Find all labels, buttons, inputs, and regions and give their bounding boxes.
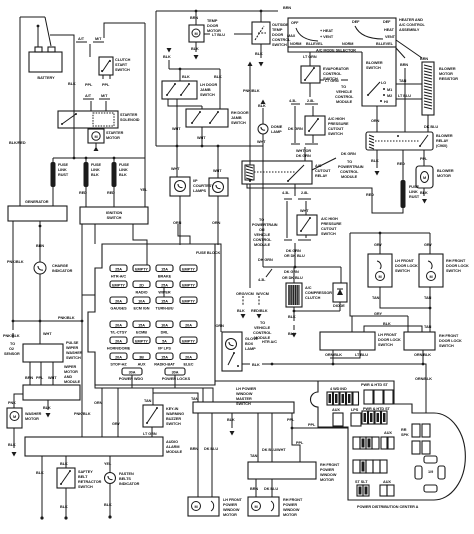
svg-text:SWITCH: SWITCH: [66, 356, 81, 360]
svg-text:WINDOW: WINDOW: [320, 473, 337, 477]
svg-text:DK GRN: DK GRN: [258, 258, 273, 262]
wire ORN/BLK to PDC: [272, 364, 426, 413]
LH front power window motor: [188, 497, 243, 517]
svg-text:M/T: M/T: [101, 94, 108, 98]
svg-text:SWITCH: SWITCH: [446, 269, 461, 273]
svg-text:OR: OR: [259, 228, 265, 232]
svg-text:DK GRN: DK GRN: [288, 127, 303, 131]
svg-text:25A: 25A: [161, 284, 168, 288]
RH front power window motor: [248, 497, 303, 517]
wire blower sw out: [377, 106, 428, 132]
wire PNK/BLK relay feed: [243, 62, 260, 166]
svg-text:RH FRONT: RH FRONT: [283, 498, 303, 502]
svg-text:EMPTY: EMPTY: [182, 340, 195, 344]
svg-text:AUDIO: AUDIO: [166, 440, 178, 444]
svg-text:ORN: ORN: [173, 221, 182, 225]
LH front door lock switch lower: [320, 332, 401, 350]
wire courtesy bus: [156, 145, 263, 147]
LH power window master switch: [193, 387, 294, 413]
svg-text:RUST: RUST: [58, 173, 69, 177]
svg-text:START: START: [115, 63, 128, 67]
node A/T M/T top bracket: [76, 23, 145, 57]
svg-text:DOOR LOCK: DOOR LOCK: [439, 339, 462, 343]
svg-text:SOLENOID: SOLENOID: [120, 118, 140, 122]
svg-text:TO: TO: [259, 218, 264, 222]
svg-text:BLOWER: BLOWER: [439, 67, 456, 71]
svg-text:A/T: A/T: [85, 94, 92, 98]
svg-text:LT BLU: LT BLU: [398, 94, 411, 98]
svg-text:EMPTY: EMPTY: [135, 340, 148, 344]
svg-text:M: M: [194, 505, 197, 509]
svg-text:POWER: POWER: [283, 503, 297, 507]
battery B1: [29, 47, 62, 80]
svg-text:FUSE: FUSE: [409, 185, 419, 189]
svg-text:ECMB: ECMB: [136, 331, 147, 335]
I/P courtesy lamp 1: [170, 146, 214, 245]
svg-text:AND: AND: [64, 375, 72, 379]
svg-text:M: M: [423, 176, 426, 180]
svg-text:TO: TO: [347, 160, 352, 164]
svg-text:PNK: PNK: [8, 401, 16, 405]
fuse block outline: [88, 244, 215, 385]
svg-text:SWITCH: SWITCH: [166, 422, 181, 426]
svg-text:POWER WDO: POWER WDO: [119, 377, 143, 381]
wire long bus y393: [95, 385, 213, 402]
svg-text:PULSE: PULSE: [66, 341, 79, 345]
svg-text:30A: 30A: [129, 371, 136, 375]
svg-text:SWITCH: SWITCH: [378, 343, 393, 347]
svg-text:POWER DISTRIBUTION CENTER A: POWER DISTRIBUTION CENTER A: [357, 505, 419, 509]
wire fuse block feeds: [95, 224, 190, 265]
svg-text:IGNITION: IGNITION: [106, 211, 123, 215]
svg-text:WHT: WHT: [213, 169, 222, 173]
svg-text:RED: RED: [366, 193, 374, 197]
svg-text:20A: 20A: [185, 324, 192, 328]
svg-text:NORM: NORM: [342, 42, 353, 46]
outside temp door control switch: [252, 11, 291, 67]
svg-text:PPL: PPL: [85, 83, 93, 87]
svg-text:BUZZER: BUZZER: [166, 417, 181, 421]
svg-text:SWITCH: SWITCH: [236, 402, 251, 406]
svg-text:4 WD IND: 4 WD IND: [330, 387, 347, 391]
wire top bus: [156, 11, 278, 146]
wire pulse to wiper: [30, 362, 53, 385]
svg-text:DOOR LOCK: DOOR LOCK: [395, 264, 418, 268]
svg-text:JAMB: JAMB: [231, 116, 242, 120]
svg-text:+ VENT: + VENT: [320, 35, 334, 39]
svg-text:SENSOR: SENSOR: [4, 352, 20, 356]
svg-text:CUTOUT: CUTOUT: [321, 227, 337, 231]
svg-text:ST SLT: ST SLT: [355, 480, 368, 484]
text VCM arrows: [236, 184, 272, 340]
svg-text:DK GRN: DK GRN: [286, 249, 301, 253]
svg-text:WIPER: WIPER: [158, 291, 171, 295]
svg-text:OUTSIDE: OUTSIDE: [272, 23, 289, 27]
svg-text:MODULE: MODULE: [341, 175, 358, 179]
svg-text:COMPRESSOR: COMPRESSOR: [305, 291, 332, 295]
svg-text:SWITCH: SWITCH: [78, 485, 93, 489]
svg-text:HI: HI: [384, 100, 388, 104]
wire left main vertical: [20, 17, 45, 206]
svg-text:A/C HIGH: A/C HIGH: [321, 217, 338, 221]
wire GRY bus: [350, 233, 430, 332]
svg-text:HTR-A/C: HTR-A/C: [111, 275, 127, 279]
wire evap split 4.3/2.8: [289, 83, 318, 143]
svg-text:MOTOR: MOTOR: [437, 174, 451, 178]
svg-text:BLK: BLK: [60, 462, 68, 466]
svg-text:15A: 15A: [161, 356, 168, 360]
fuse link rust blower: [247, 180, 420, 213]
svg-text:BOX: BOX: [245, 342, 254, 346]
svg-text:O2: O2: [9, 347, 14, 351]
svg-text:MOTOR: MOTOR: [283, 513, 297, 517]
svg-text:LT GRN: LT GRN: [303, 55, 317, 59]
fasten belts indicator: [104, 472, 140, 519]
svg-text:4.3L: 4.3L: [289, 99, 297, 103]
wire audio outs: [42, 456, 110, 518]
ground arrow left: [168, 60, 170, 69]
svg-text:A/T: A/T: [78, 37, 85, 41]
svg-text:PPL: PPL: [308, 423, 316, 427]
wire main feed bus: [53, 157, 145, 159]
svg-text:WASHER: WASHER: [25, 412, 42, 416]
svg-text:WHT: WHT: [197, 136, 206, 140]
svg-text:DK BLU: DK BLU: [204, 447, 218, 451]
svg-text:DOOR: DOOR: [272, 33, 283, 37]
svg-text:20A: 20A: [115, 300, 122, 304]
wire relay outs: [376, 150, 378, 168]
svg-text:TAN: TAN: [250, 454, 258, 458]
svg-text:BLK: BLK: [258, 104, 266, 108]
node A/T M/T lower bracket: [83, 94, 110, 111]
svg-text:WHT: WHT: [172, 127, 181, 131]
svg-text:2.8L: 2.8L: [301, 191, 309, 195]
svg-text:ORN/BLK: ORN/BLK: [414, 353, 431, 357]
svg-text:TAN: TAN: [399, 79, 407, 83]
svg-text:M: M: [254, 505, 257, 509]
charge indicator: [34, 221, 73, 344]
svg-text:DK GRN: DK GRN: [284, 270, 299, 274]
svg-text:PWR & HTD ST: PWR & HTD ST: [361, 383, 389, 387]
svg-text:BI-LEVEL: BI-LEVEL: [306, 42, 324, 46]
svg-text:GENERATOR: GENERATOR: [25, 200, 49, 204]
wire merge 2: [284, 240, 311, 267]
svg-text:PNK/BLK: PNK/BLK: [243, 89, 260, 93]
svg-text:MODULE: MODULE: [64, 380, 81, 384]
svg-text:AUX: AUX: [384, 431, 392, 435]
svg-text:PPL: PPL: [36, 376, 44, 380]
A/C mode selector: [287, 20, 396, 53]
svg-text:M: M: [94, 135, 97, 139]
svg-text:15A: 15A: [161, 268, 168, 272]
svg-text:LT BLU: LT BLU: [212, 33, 225, 37]
svg-text:BLK: BLK: [182, 75, 190, 79]
A/C cutout relay: [242, 161, 331, 184]
wire LH jamb out: [168, 99, 202, 146]
svg-text:MOTOR: MOTOR: [106, 136, 120, 140]
svg-text:HTR A/C: HTR A/C: [262, 340, 277, 344]
svg-text:M2: M2: [387, 94, 392, 98]
svg-text:VEHICLE: VEHICLE: [254, 233, 271, 237]
svg-text:EMPTY: EMPTY: [182, 284, 195, 288]
svg-text:EMPTY: EMPTY: [112, 284, 125, 288]
svg-text:TO: TO: [260, 321, 265, 325]
svg-text:PRESSURE: PRESSURE: [321, 222, 342, 226]
svg-text:MOTOR: MOTOR: [25, 417, 39, 421]
svg-text:BRN: BRN: [190, 16, 198, 20]
diode D1: [333, 283, 347, 308]
svg-text:2D: 2D: [139, 284, 144, 288]
svg-text:4.3L: 4.3L: [258, 278, 266, 282]
svg-text:EVAPORATOR: EVAPORATOR: [323, 67, 349, 71]
svg-text:POWERTRAIN: POWERTRAIN: [252, 223, 278, 227]
svg-text:(C960): (C960): [436, 144, 448, 148]
svg-text:BLK: BLK: [255, 52, 263, 56]
A/C high pressure cutout switch 1: [288, 116, 349, 143]
svg-text:BRN: BRN: [25, 376, 33, 380]
text BRN drop: [396, 40, 422, 58]
svg-text:10A: 10A: [161, 324, 168, 328]
svg-text:ECM IGN: ECM IGN: [134, 307, 150, 311]
svg-text:HEATER AND: HEATER AND: [399, 18, 423, 22]
svg-text:CLUTCH: CLUTCH: [115, 58, 131, 62]
svg-text:BLOWER: BLOWER: [436, 134, 453, 138]
svg-text:TAN: TAN: [372, 296, 380, 300]
wire pnk/blk left: [12, 221, 14, 321]
svg-text:BLK: BLK: [227, 418, 235, 422]
svg-text:LH POWER: LH POWER: [236, 387, 256, 391]
svg-text:TO: TO: [10, 342, 15, 346]
svg-text:30A: 30A: [172, 371, 179, 375]
svg-text:FUSE: FUSE: [119, 163, 129, 167]
svg-text:FASTEN: FASTEN: [119, 472, 134, 476]
svg-text:RH FRONT: RH FRONT: [446, 259, 466, 263]
svg-text:BLK: BLK: [420, 191, 428, 195]
svg-text:LINK: LINK: [58, 168, 67, 172]
svg-text:20A: 20A: [115, 340, 122, 344]
svg-text:SPK: SPK: [401, 433, 409, 437]
wire orn/gry drops: [102, 388, 118, 437]
fuse link blk F2: [79, 158, 101, 207]
svg-text:ALARM: ALARM: [166, 445, 179, 449]
svg-text:BLK: BLK: [288, 315, 296, 319]
wire RH switch outs: [256, 479, 272, 497]
wire battery cables: [38, 17, 74, 158]
svg-text:FUSE: FUSE: [91, 163, 101, 167]
svg-text:YEL: YEL: [104, 462, 112, 466]
svg-text:BRN: BRN: [250, 487, 258, 491]
fuses grid: [107, 265, 197, 381]
svg-text:BRN: BRN: [400, 63, 408, 67]
svg-text:M: M: [13, 415, 16, 419]
svg-text:GRY: GRY: [424, 243, 432, 247]
svg-text:DK BLU: DK BLU: [264, 487, 278, 491]
svg-text:VEHICLE: VEHICLE: [254, 326, 271, 330]
svg-text:SWITCH: SWITCH: [115, 68, 130, 72]
svg-text:ORN: ORN: [371, 119, 380, 123]
svg-text:A/C: A/C: [305, 286, 312, 290]
svg-text:M: M: [378, 275, 381, 279]
svg-text:EMPTY: EMPTY: [182, 300, 195, 304]
svg-text:DK GRN: DK GRN: [296, 154, 311, 158]
svg-text:CONTROL: CONTROL: [253, 238, 272, 242]
svg-text:RELAY: RELAY: [315, 174, 328, 178]
svg-text:LH FRONT: LH FRONT: [395, 259, 415, 263]
svg-text:STARTER: STARTER: [106, 131, 124, 135]
svg-text:GRY: GRY: [374, 312, 382, 316]
A/C compressor clutch: [286, 283, 332, 307]
svg-text:DOME: DOME: [271, 125, 283, 129]
svg-text:PPL: PPL: [102, 83, 110, 87]
svg-text:1/9: 1/9: [428, 470, 433, 474]
svg-text:BRN: BRN: [190, 447, 198, 451]
wire PPL branch: [292, 428, 348, 462]
wire pnk/blk bus: [13, 224, 95, 437]
svg-text:PWR & HTD ST: PWR & HTD ST: [363, 407, 391, 411]
svg-text:BRN: BRN: [36, 244, 44, 248]
wire master outs: [198, 413, 292, 497]
svg-text:BLK: BLK: [371, 159, 379, 163]
svg-text:SWITCH: SWITCH: [439, 344, 454, 348]
svg-text:LAMP: LAMP: [245, 347, 256, 351]
svg-text:WHT: WHT: [43, 332, 52, 336]
svg-text:WHT: WHT: [48, 376, 57, 380]
svg-text:TURN-B/U: TURN-B/U: [156, 307, 174, 311]
svg-text:ELEC: ELEC: [184, 363, 194, 367]
svg-text:RH DOOR: RH DOOR: [231, 111, 249, 115]
svg-text:DOOR LOCK: DOOR LOCK: [446, 264, 469, 268]
svg-text:DK BLU/WHT: DK BLU/WHT: [262, 448, 286, 452]
svg-text:SAFTEY: SAFTEY: [78, 470, 93, 474]
svg-text:EMPTY: EMPTY: [135, 268, 148, 272]
svg-text:CUTOUT: CUTOUT: [315, 169, 331, 173]
svg-text:WHT: WHT: [257, 140, 266, 144]
svg-text:25A: 25A: [115, 268, 122, 272]
svg-text:15A: 15A: [161, 300, 168, 304]
svg-text:POWERTRAIN: POWERTRAIN: [338, 165, 364, 169]
svg-text:LAMP: LAMP: [271, 130, 282, 134]
wiper motor and module: [23, 365, 81, 400]
svg-text:AUX: AUX: [138, 363, 146, 367]
svg-text:MODULE: MODULE: [336, 100, 353, 104]
svg-text:BLK: BLK: [104, 503, 112, 507]
LH door jamb switch: [162, 81, 217, 99]
svg-text:BLK/RED: BLK/RED: [9, 141, 26, 145]
svg-text:PNK/BLK: PNK/BLK: [3, 334, 20, 338]
svg-text:SWITCH: SWITCH: [328, 132, 343, 136]
svg-text:20A: 20A: [115, 324, 122, 328]
svg-text:FUSE: FUSE: [58, 163, 68, 167]
svg-text:RADIO: RADIO: [136, 291, 148, 295]
svg-text:TAN: TAN: [424, 296, 432, 300]
svg-text:RESISTOR: RESISTOR: [439, 77, 458, 81]
svg-text:I/P LPS: I/P LPS: [158, 347, 171, 351]
svg-text:MAX: MAX: [287, 34, 296, 38]
svg-text:SWITCH: SWITCH: [395, 269, 410, 273]
svg-text:BLK: BLK: [252, 363, 260, 367]
svg-text:MODULE: MODULE: [166, 450, 183, 454]
svg-text:WASHER: WASHER: [66, 351, 83, 355]
wire clutch to solenoid: [103, 75, 110, 79]
svg-text:TAN: TAN: [424, 325, 432, 329]
svg-text:VEHICLE: VEHICLE: [336, 90, 353, 94]
RH front door lock switch lower: [404, 332, 462, 350]
svg-text:HORN/DOME: HORN/DOME: [107, 347, 131, 351]
svg-text:EMPTY: EMPTY: [182, 268, 195, 272]
wire merge bracket: [291, 144, 318, 161]
starter solenoid: [58, 111, 140, 128]
svg-text:KEY-IN: KEY-IN: [166, 407, 179, 411]
PDC fuses lower: [353, 424, 445, 496]
svg-text:JAMB: JAMB: [200, 88, 211, 92]
svg-text:ORN: ORN: [94, 401, 103, 405]
svg-text:M1: M1: [387, 88, 392, 92]
svg-text:20A: 20A: [185, 356, 192, 360]
glove box lamp: [215, 244, 277, 371]
svg-text:BLK: BLK: [8, 443, 16, 447]
wire lower lock outs: [330, 350, 423, 365]
svg-text:RR: RR: [401, 428, 407, 432]
svg-text:ORG/VCM: ORG/VCM: [236, 292, 254, 296]
RH front door lock switch: [419, 254, 469, 287]
starter motor: [88, 129, 124, 151]
svg-text:DEF: DEF: [383, 20, 391, 24]
svg-text:AUX: AUX: [332, 408, 340, 412]
svg-text:BLOWER: BLOWER: [366, 61, 383, 65]
svg-text:ORN: ORN: [216, 324, 225, 328]
svg-text:YEL: YEL: [140, 188, 148, 192]
generator: [8, 200, 67, 221]
pulse wiper washer switch: [23, 341, 83, 362]
svg-text:I/P: I/P: [193, 179, 198, 183]
svg-text:BLK: BLK: [214, 75, 222, 79]
svg-text:BRAKE: BRAKE: [158, 275, 172, 279]
svg-text:SWITCH: SWITCH: [231, 121, 246, 125]
svg-text:DK BLU: DK BLU: [424, 125, 438, 129]
wire RH jamb out: [201, 127, 203, 146]
LH front door lock switch: [368, 254, 418, 287]
svg-text:WINDOW: WINDOW: [236, 392, 253, 396]
svg-text:CONTROL: CONTROL: [323, 72, 342, 76]
svg-text:TAN: TAN: [144, 399, 152, 403]
svg-text:LINK: LINK: [409, 190, 418, 194]
svg-text:SWITCH: SWITCH: [366, 66, 381, 70]
key-in warning buzzer switch: [143, 399, 184, 437]
svg-text:2.8L: 2.8L: [307, 99, 315, 103]
svg-text:PNK/BLK: PNK/BLK: [7, 260, 24, 264]
svg-text:DOOR LOCK: DOOR LOCK: [378, 338, 401, 342]
svg-text:DEF: DEF: [352, 20, 360, 24]
svg-text:LPS: LPS: [351, 408, 359, 412]
svg-text:POWER: POWER: [320, 468, 334, 472]
svg-text:BLOWER: BLOWER: [437, 169, 454, 173]
svg-text:15A: 15A: [138, 324, 145, 328]
svg-text:WHT: WHT: [171, 167, 180, 171]
wire clutch ground: [294, 302, 340, 321]
svg-text:T/L-CTSY: T/L-CTSY: [110, 331, 127, 335]
svg-text:SWITCH: SWITCH: [107, 216, 122, 220]
svg-text:WIPER: WIPER: [66, 346, 79, 350]
svg-text:GLOVE: GLOVE: [245, 337, 259, 341]
temp door motor: [189, 11, 252, 60]
svg-text:BLK: BLK: [43, 406, 51, 410]
svg-text:BLK: BLK: [60, 505, 68, 509]
svg-text:TEMP: TEMP: [272, 28, 283, 32]
svg-text:LT BLU: LT BLU: [355, 353, 368, 357]
svg-text:LAMPS: LAMPS: [193, 189, 207, 193]
svg-text:MOTOR: MOTOR: [320, 478, 334, 482]
svg-text:CONTROL: CONTROL: [335, 95, 354, 99]
